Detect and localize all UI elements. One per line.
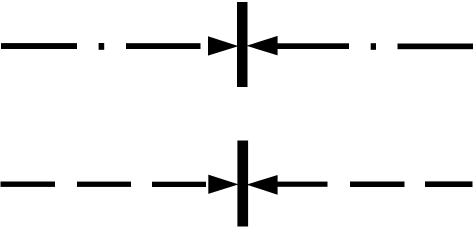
centerline row: vertical bar — [237, 2, 248, 87]
dashed row: dash segment 2 — [77, 182, 131, 187]
dashed row: dash segment 5 — [350, 182, 405, 188]
dashed row: dash segment 4 — [278, 182, 328, 187]
centerline row: right arrowhead — [247, 36, 278, 56]
centerline row: left arrowhead — [208, 36, 239, 55]
centerline row: dot 1 — [99, 43, 105, 50]
dashed row: dash segment 6 — [425, 181, 473, 187]
centerline row: dash segment 3 — [278, 43, 350, 49]
dashed row: vertical bar — [237, 141, 248, 227]
dashed row: left arrowhead — [208, 175, 238, 194]
dashed row: dash segment 3 — [152, 182, 206, 187]
centerline row: dash segment 1 — [1, 43, 77, 49]
dashed row: dash segment 1 — [1, 182, 56, 187]
centerline row: dash segment 4 — [398, 44, 474, 50]
centerline row: dash segment 2 — [126, 43, 201, 49]
centerline row: dot 2 — [371, 43, 376, 50]
dashed row: right arrowhead — [247, 175, 278, 195]
